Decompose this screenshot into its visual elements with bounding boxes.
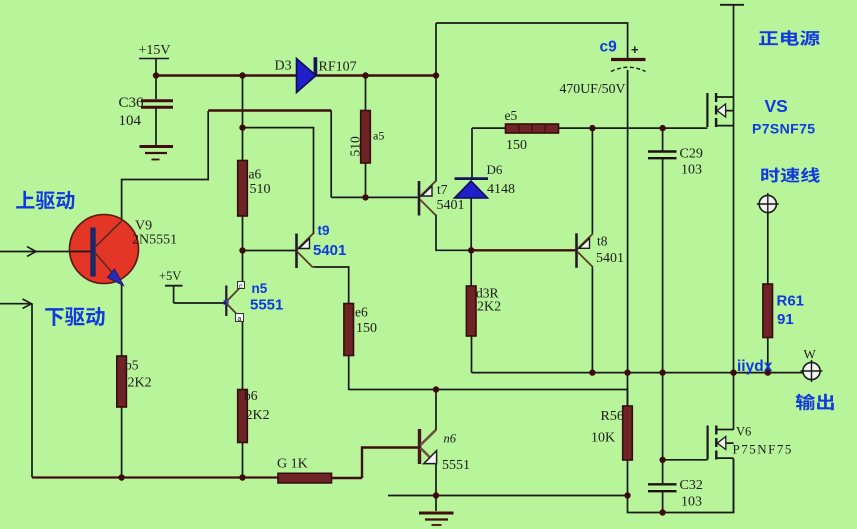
- svg-text:2N5551: 2N5551: [132, 233, 177, 248]
- svg-text:5551: 5551: [442, 458, 470, 473]
- svg-text:2K2: 2K2: [477, 300, 501, 315]
- svg-text:n5: n5: [252, 281, 268, 296]
- svg-text:e5: e5: [505, 108, 518, 123]
- svg-text:510: 510: [348, 136, 363, 157]
- svg-text:5401: 5401: [596, 251, 624, 266]
- svg-text:+15V: +15V: [139, 43, 171, 58]
- svg-text:510: 510: [250, 182, 271, 197]
- svg-text:RF107: RF107: [319, 60, 357, 75]
- svg-text:V9: V9: [135, 219, 152, 234]
- svg-text:R56: R56: [601, 409, 624, 424]
- svg-text:+: +: [631, 42, 639, 57]
- svg-text:b5: b5: [125, 358, 139, 373]
- svg-text:10K: 10K: [591, 431, 615, 446]
- svg-text:103: 103: [681, 495, 702, 510]
- svg-text:t8: t8: [597, 234, 608, 249]
- svg-text:150: 150: [356, 321, 377, 336]
- svg-text:C29: C29: [680, 147, 703, 162]
- svg-text:c: c: [239, 284, 243, 291]
- svg-text:+5V: +5V: [159, 269, 181, 283]
- svg-text:104: 104: [119, 113, 142, 129]
- svg-text:e6: e6: [355, 305, 368, 320]
- svg-text:n6: n6: [444, 432, 457, 446]
- svg-text:c9: c9: [600, 39, 618, 56]
- svg-text:V6: V6: [736, 425, 751, 439]
- svg-text:91: 91: [777, 311, 794, 328]
- svg-text:5551: 5551: [250, 297, 283, 314]
- svg-text:t7: t7: [437, 182, 448, 197]
- svg-text:R61: R61: [777, 293, 805, 310]
- svg-text:470UF/50V: 470UF/50V: [560, 81, 626, 96]
- svg-text:2K2: 2K2: [246, 408, 270, 423]
- svg-text:5401: 5401: [313, 242, 346, 259]
- svg-text:150: 150: [506, 138, 527, 153]
- svg-text:iiydx: iiydx: [737, 358, 773, 375]
- svg-text:C36: C36: [119, 95, 145, 111]
- svg-text:103: 103: [681, 163, 702, 178]
- svg-text:a5: a5: [373, 129, 384, 143]
- svg-text:W: W: [804, 347, 817, 362]
- svg-text:P75NF75: P75NF75: [733, 442, 793, 457]
- svg-text:t9: t9: [318, 223, 330, 238]
- svg-text:G 1K: G 1K: [277, 457, 308, 472]
- svg-text:D3: D3: [275, 59, 292, 74]
- svg-text:a6: a6: [249, 167, 262, 182]
- svg-text:P7SNF75: P7SNF75: [752, 121, 816, 137]
- svg-text:C32: C32: [680, 478, 703, 493]
- svg-text:4148: 4148: [487, 182, 515, 197]
- svg-text:a: a: [238, 316, 242, 323]
- svg-text:D6: D6: [487, 162, 503, 177]
- svg-text:VS: VS: [765, 96, 788, 116]
- svg-text:b6: b6: [244, 388, 258, 403]
- svg-text:2K2: 2K2: [128, 376, 152, 391]
- svg-text:5401: 5401: [437, 198, 465, 213]
- svg-text:d3R: d3R: [476, 286, 499, 301]
